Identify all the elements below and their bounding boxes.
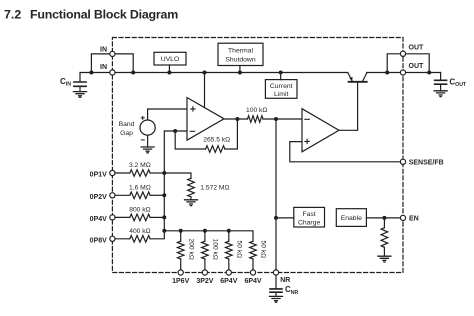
- svg-text:1.6 MΩ: 1.6 MΩ: [129, 185, 151, 192]
- svg-text:SENSE/FB: SENSE/FB: [409, 159, 444, 166]
- resistor 1.572 M: [188, 178, 195, 197]
- node row 50k: [227, 229, 231, 233]
- svg-text:Current: Current: [270, 83, 293, 90]
- node NR fast charge branch: [274, 216, 278, 220]
- wire 0P2V row: [115, 194, 130, 196]
- pin EN: [400, 215, 405, 220]
- wire U1 output row: [224, 118, 248, 120]
- op-amp U2 buffer: [302, 109, 339, 152]
- svg-text:Charge: Charge: [298, 220, 321, 227]
- resistor 50 k vertical first: [226, 241, 233, 259]
- node OUT loop right: [427, 71, 431, 75]
- wire NR bus vertical: [275, 119, 277, 270]
- block Fast Charge: [294, 207, 325, 227]
- node row 100k: [203, 229, 207, 233]
- transistor Q1 emitter arrow: [349, 77, 352, 81]
- svg-text:100 kΩ: 100 kΩ: [246, 107, 267, 114]
- svg-text:1.572 MΩ: 1.572 MΩ: [200, 185, 229, 192]
- capacitor COUT: [435, 73, 447, 91]
- wire bottom string row: [164, 231, 253, 241]
- wire 0P4V row right: [150, 216, 164, 218]
- svg-text:3P2V: 3P2V: [196, 278, 213, 285]
- block UVLO: [154, 52, 186, 65]
- wire op-amp U1 power stub: [204, 73, 206, 108]
- node bus 0P4V: [162, 215, 166, 219]
- svg-text:0P2V: 0P2V: [90, 194, 107, 201]
- svg-text:OUT: OUT: [409, 63, 425, 70]
- IC dashed boundary: [112, 38, 403, 273]
- svg-text:800 kΩ: 800 kΩ: [129, 207, 150, 214]
- wire 0P1V row: [115, 172, 130, 174]
- svg-text:IN: IN: [100, 64, 107, 71]
- wire Current Limit stub: [280, 73, 282, 80]
- svg-text:Shutdown: Shutdown: [225, 57, 255, 64]
- transistor Q1 collector diagonal: [363, 73, 367, 82]
- svg-text:Functional Block Diagram: Functional Block Diagram: [30, 7, 178, 21]
- svg-text:UVLO: UVLO: [161, 56, 180, 63]
- svg-text:Fast: Fast: [302, 211, 315, 218]
- node OUT loop left: [385, 71, 389, 75]
- wire drop 200k: [180, 231, 182, 241]
- block Enable: [336, 209, 366, 227]
- svg-text:265.5 kΩ: 265.5 kΩ: [203, 137, 230, 144]
- svg-text:COUT: COUT: [449, 77, 467, 88]
- resistor 3.2 M: [130, 170, 150, 177]
- svg-text:Limit: Limit: [274, 91, 288, 98]
- svg-text:6P4V: 6P4V: [244, 278, 261, 285]
- node rail CIN junction: [89, 71, 93, 75]
- op-amp U2 plus input mark: [305, 139, 309, 143]
- node rail U1 power: [203, 71, 207, 75]
- wire 1.572M branch: [164, 173, 191, 178]
- svg-text:Band: Band: [119, 121, 135, 128]
- resistor 265.5 k feedback: [206, 146, 225, 153]
- wire to fast charge: [276, 217, 294, 219]
- wire drop 100k: [204, 231, 206, 241]
- wire band gap to ground: [147, 135, 149, 146]
- block Thermal Shutdown: [218, 43, 263, 65]
- wire drop 50k: [228, 231, 230, 241]
- transistor Q1 base bar: [349, 81, 367, 83]
- wire 0P1V row right: [150, 172, 164, 174]
- band gap reference source: [140, 120, 155, 135]
- ground for COUT: [434, 91, 447, 97]
- ground for CNR: [270, 296, 283, 302]
- svg-text:50 kΩ: 50 kΩ: [260, 241, 267, 259]
- node rail thermal shutdown: [238, 71, 242, 75]
- pin 0P2V: [110, 193, 115, 198]
- svg-text:NR: NR: [280, 277, 290, 284]
- svg-text:EN: EN: [409, 216, 419, 223]
- band gap minus mark: [141, 139, 144, 141]
- ground for band gap: [141, 147, 154, 153]
- svg-text:100 kΩ: 100 kΩ: [212, 239, 219, 260]
- wire U2 output to pass transistor base: [339, 82, 358, 130]
- wire 50k to pin: [228, 259, 230, 270]
- svg-text:6P4V: 6P4V: [220, 278, 237, 285]
- pin 0P1V: [110, 170, 115, 175]
- node output of U1: [235, 117, 239, 121]
- node rail IN loop right: [131, 71, 135, 75]
- svg-text:1P6V: 1P6V: [172, 278, 189, 285]
- resistor 400 k: [130, 236, 150, 243]
- pin 1P6V: [178, 270, 183, 275]
- pin NR: [273, 270, 278, 275]
- wire 1.572M to ground: [190, 197, 192, 200]
- svg-text:0P4V: 0P4V: [90, 216, 107, 223]
- node NR branch: [274, 117, 278, 121]
- wire U1 feedback branch: [175, 131, 205, 149]
- pin 6P4V first: [226, 270, 231, 275]
- pin 0P4V: [110, 215, 115, 220]
- op-amp U2 minus input mark: [305, 118, 309, 120]
- wire OUT right loop: [406, 54, 430, 73]
- svg-text:CNR: CNR: [285, 285, 299, 296]
- wire 100k to pin: [204, 259, 206, 270]
- wire OUT loop: [387, 54, 400, 73]
- node row 200k: [179, 229, 183, 233]
- band gap plus mark: [141, 116, 144, 119]
- transistor Q1 emitter diagonal: [348, 73, 352, 82]
- svg-text:50 kΩ: 50 kΩ: [235, 241, 242, 259]
- wire second 50k to pin: [252, 259, 254, 270]
- pin OUT top: [400, 51, 405, 56]
- wire 200k to pin: [180, 259, 182, 270]
- node bus 0P2V: [162, 193, 166, 197]
- capacitor CIN: [74, 73, 86, 92]
- svg-text:OUT: OUT: [409, 44, 425, 51]
- ground for 1.572M: [185, 200, 198, 206]
- pin 6P4V second: [250, 270, 255, 275]
- node rail UVLO: [167, 71, 171, 75]
- svg-text:3.2 MΩ: 3.2 MΩ: [129, 162, 151, 169]
- wire EN pulldown top: [383, 218, 385, 228]
- wire output rail segment: [367, 72, 441, 74]
- svg-text:CIN: CIN: [60, 77, 71, 88]
- resistor 800 k: [130, 214, 150, 221]
- ground for EN pulldown: [378, 256, 391, 262]
- wire feedback to output node: [225, 119, 238, 149]
- op-amp U1 error amplifier: [187, 98, 224, 141]
- block Current Limit: [265, 80, 297, 99]
- pin IN bottom: [110, 70, 115, 75]
- wire main input rail: [80, 72, 348, 74]
- wire 100k to op-amp U2 minus input: [263, 118, 302, 120]
- resistor 100 k vertical: [202, 241, 209, 259]
- pin OUT bottom: [400, 70, 405, 75]
- svg-text:Enable: Enable: [341, 215, 362, 222]
- op-amp U1 plus input mark: [191, 107, 195, 111]
- svg-text:7.2: 7.2: [4, 7, 21, 21]
- wire band gap to op-amp U1 plus input: [148, 109, 187, 120]
- wire U2 plus input to SENSE/FB: [290, 142, 401, 162]
- wire Thermal Shutdown stub: [239, 66, 241, 73]
- node bus bottom row: [162, 229, 166, 233]
- svg-text:Gap: Gap: [120, 130, 133, 137]
- wire UVLO stub: [168, 65, 170, 73]
- wire 0P4V row: [115, 216, 130, 218]
- resistor 1.6 M: [130, 192, 150, 199]
- svg-text:IN: IN: [100, 46, 107, 53]
- svg-text:0P1V: 0P1V: [90, 172, 107, 179]
- pin IN top: [110, 51, 115, 56]
- ground for CIN: [74, 92, 87, 98]
- pin 3P2V: [202, 270, 207, 275]
- op-amp U1 minus input mark: [190, 130, 194, 132]
- capacitor CNR: [270, 275, 282, 296]
- wire EN pulldown bottom: [383, 247, 385, 256]
- node EN pulldown: [382, 216, 386, 220]
- resistor EN pulldown: [381, 228, 388, 248]
- node bus 0P1V: [162, 171, 166, 175]
- wire 0P8V row: [115, 238, 130, 240]
- svg-text:400 kΩ: 400 kΩ: [129, 228, 150, 235]
- svg-text:200 kΩ: 200 kΩ: [187, 239, 194, 260]
- resistor 200 k vertical: [177, 241, 184, 259]
- node U1 minus: [173, 129, 177, 133]
- pin SENSE/FB: [400, 159, 405, 164]
- svg-text:Thermal: Thermal: [228, 47, 253, 54]
- wire top IN loop: [91, 54, 133, 73]
- wire enable to EN pin: [366, 217, 400, 219]
- node rail current limit: [279, 71, 283, 75]
- wire U1 minus input to resistor ladder bus: [150, 131, 187, 239]
- pin 0P8V: [110, 236, 115, 241]
- resistor 100 k: [248, 116, 263, 123]
- wire 0P2V row right: [150, 194, 164, 196]
- svg-text:0P8V: 0P8V: [90, 237, 107, 244]
- resistor 50 k vertical second: [250, 241, 257, 259]
